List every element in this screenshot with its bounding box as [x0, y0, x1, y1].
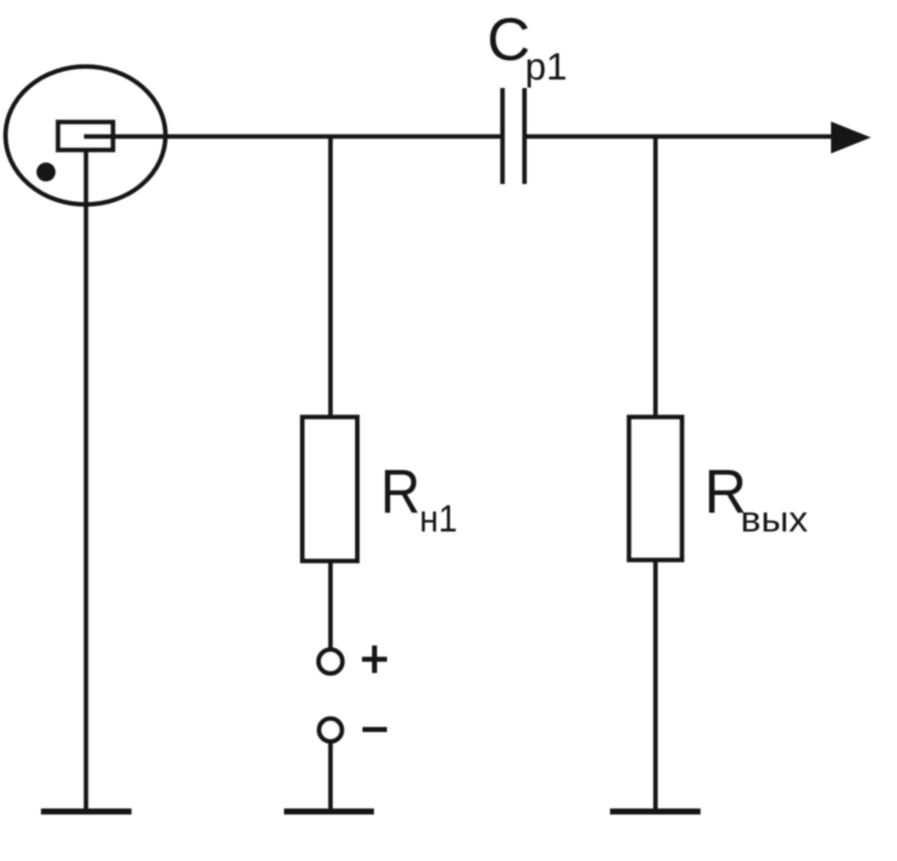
- label minus: [363, 727, 388, 732]
- label plus: [362, 646, 387, 674]
- svg-text:R: R: [381, 458, 421, 527]
- ground Rвых branch: [610, 809, 701, 815]
- wire node B down to Rвых: [653, 137, 658, 418]
- wire Rвых to ground: [653, 561, 658, 809]
- terminal minus: [319, 719, 342, 742]
- output arrow: [831, 122, 871, 154]
- label Rн1: [381, 458, 458, 540]
- svg-text:C: C: [487, 6, 530, 73]
- wire capacitor to output arrow: [525, 134, 837, 139]
- terminal plus: [319, 650, 343, 674]
- resistor Rн1: [302, 417, 357, 561]
- svg-text:вых: вых: [741, 499, 809, 540]
- wire minus terminal to ground: [328, 742, 333, 810]
- wire head to ground: [84, 150, 89, 809]
- label Rвых: [704, 457, 808, 540]
- ground head branch: [41, 809, 132, 815]
- svg-text:н1: н1: [420, 497, 458, 540]
- wire node A down to Rн1: [328, 137, 333, 418]
- label Cp1: [487, 6, 567, 89]
- resistor Rвых: [629, 417, 682, 560]
- svg-text:p1: p1: [525, 47, 567, 89]
- pickup head B1: [6, 67, 166, 205]
- wire Rн1 to plus terminal: [328, 561, 333, 648]
- wire head output to capacitor: [84, 134, 503, 139]
- ground battery branch: [284, 809, 374, 815]
- capacitor Cp1: [503, 88, 525, 184]
